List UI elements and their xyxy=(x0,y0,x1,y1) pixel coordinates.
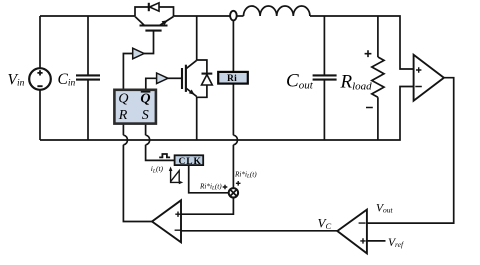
svg-text:VC: VC xyxy=(318,216,332,232)
svg-text:iL(t): iL(t) xyxy=(151,164,164,174)
svg-text:CLK: CLK xyxy=(179,157,202,167)
svg-text:Rload: Rload xyxy=(340,72,373,93)
svg-text:Vref: Vref xyxy=(388,237,404,249)
svg-text:Q: Q xyxy=(140,92,150,107)
svg-text:Vout: Vout xyxy=(376,203,394,215)
svg-text:Cin: Cin xyxy=(58,71,76,88)
svg-text:Cout: Cout xyxy=(286,71,314,92)
svg-text:Vin: Vin xyxy=(8,72,25,89)
svg-text:Ri*iL(t): Ri*iL(t) xyxy=(234,170,257,179)
svg-text:Ri*iL(t): Ri*iL(t) xyxy=(199,182,222,191)
svg-text:S: S xyxy=(142,108,149,123)
svg-text:Ri: Ri xyxy=(227,74,237,84)
svg-text:R: R xyxy=(118,108,128,123)
svg-text:Q: Q xyxy=(118,92,128,107)
